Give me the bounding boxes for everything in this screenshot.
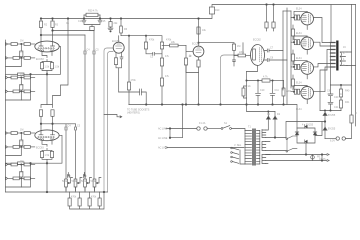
svg-text:500k: 500k: [81, 180, 87, 183]
svg-text:1M: 1M: [20, 40, 23, 43]
svg-text:C10: C10: [260, 89, 265, 92]
svg-text:4.7k: 4.7k: [263, 76, 268, 79]
svg-text:PE: PE: [317, 156, 321, 159]
svg-text:R40: R40: [345, 90, 350, 93]
svg-text:220k: 220k: [286, 90, 292, 93]
svg-text:470k: 470k: [131, 79, 137, 82]
svg-text:R10: R10: [215, 9, 220, 12]
svg-text:BY255: BY255: [328, 114, 336, 117]
svg-text:470k: 470k: [91, 196, 97, 199]
svg-text:4: 4: [343, 58, 345, 61]
svg-text:22k: 22k: [114, 22, 119, 25]
svg-text:C4: C4: [87, 49, 91, 52]
svg-text:F1 2A: F1 2A: [199, 122, 206, 125]
svg-text:C7: C7: [270, 47, 274, 50]
svg-text:C5: C5: [96, 49, 100, 52]
svg-text:C5: C5: [77, 125, 81, 128]
svg-text:R41: R41: [345, 101, 350, 104]
svg-text:1M: 1M: [20, 171, 23, 174]
svg-text:22k: 22k: [171, 41, 176, 44]
svg-text:BY255: BY255: [328, 128, 336, 131]
svg-text:1M: 1M: [20, 73, 23, 76]
svg-text:1M: 1M: [20, 51, 23, 54]
svg-text:R2: R2: [44, 24, 48, 27]
svg-text:C8: C8: [270, 57, 274, 60]
svg-text:470k: 470k: [71, 196, 77, 199]
svg-text:1M: 1M: [20, 129, 23, 132]
svg-text:8: 8: [343, 52, 345, 55]
svg-text:470k: 470k: [149, 39, 155, 42]
svg-text:10: 10: [340, 93, 343, 96]
svg-text:S1: S1: [224, 122, 228, 125]
svg-text:EL34: EL34: [296, 108, 302, 111]
svg-text:2.2k: 2.2k: [246, 85, 251, 88]
svg-text:1M: 1M: [20, 140, 23, 143]
svg-text:1M: 1M: [20, 160, 23, 163]
svg-text:ECC83: ECC83: [36, 147, 44, 150]
svg-text:EL34: EL34: [296, 82, 302, 85]
svg-text:EL34: EL34: [296, 8, 302, 11]
svg-text:1.5k: 1.5k: [55, 66, 60, 69]
svg-text:(HEATERS): (HEATERS): [127, 112, 140, 115]
svg-text:C4: C4: [68, 125, 72, 128]
svg-text:500k: 500k: [91, 180, 97, 183]
svg-text:ECC81: ECC81: [192, 43, 200, 46]
svg-text:ECC83: ECC83: [36, 58, 44, 61]
svg-text:ECC82: ECC82: [253, 39, 261, 42]
svg-text:1M: 1M: [20, 84, 23, 87]
svg-text:AC LINE: AC LINE: [158, 137, 168, 140]
svg-text:4 x BY255: 4 x BY255: [302, 124, 314, 127]
svg-text:ECC81: ECC81: [112, 40, 120, 43]
svg-text:C15: C15: [101, 20, 106, 23]
svg-text:10k: 10k: [202, 29, 207, 32]
svg-text:R30 4.7k: R30 4.7k: [88, 10, 98, 13]
svg-text:AC LINE: AC LINE: [158, 147, 168, 150]
svg-text:R: R: [355, 112, 357, 115]
svg-text:47k: 47k: [165, 75, 170, 78]
svg-text:V. SEL: V. SEL: [234, 144, 242, 147]
svg-text:1.5k: 1.5k: [45, 154, 50, 157]
svg-text:R3: R3: [55, 24, 59, 27]
svg-text:AC LINE: AC LINE: [158, 128, 168, 131]
svg-text:R6: R6: [124, 28, 128, 31]
svg-text:T1: T1: [248, 126, 251, 129]
svg-text:C11: C11: [275, 89, 280, 92]
svg-text:16: 16: [343, 46, 346, 49]
svg-text:6.3V: 6.3V: [330, 140, 335, 143]
svg-text:D2: D2: [277, 113, 281, 116]
svg-text:220k: 220k: [239, 51, 245, 54]
svg-text:C14: C14: [78, 20, 83, 23]
svg-text:C1: C1: [66, 22, 70, 25]
svg-text:500k: 500k: [72, 180, 78, 183]
svg-text:1M: 1M: [237, 45, 240, 48]
svg-text:C21: C21: [334, 106, 339, 109]
svg-text:C3: C3: [150, 56, 154, 59]
svg-text:EL34: EL34: [296, 57, 302, 60]
svg-text:D1: D1: [267, 113, 271, 116]
svg-text:EL34: EL34: [296, 32, 302, 35]
svg-text:500k: 500k: [62, 180, 68, 183]
svg-text:C9: C9: [327, 90, 331, 93]
svg-text:1.5k: 1.5k: [45, 66, 50, 69]
svg-text:C20: C20: [334, 96, 339, 99]
svg-text:47k: 47k: [165, 55, 170, 58]
